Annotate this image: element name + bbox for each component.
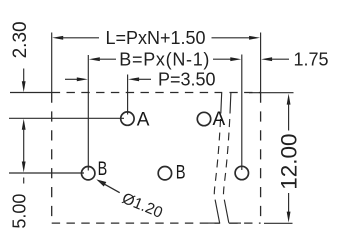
svg-text:B: B (98, 159, 108, 180)
svg-text:5.00: 5.00 (9, 194, 29, 229)
svg-text:2.30: 2.30 (10, 21, 31, 58)
svg-text:B=Px(N-1): B=Px(N-1) (119, 49, 210, 69)
svg-text:12.00: 12.00 (277, 133, 302, 189)
svg-text:A: A (137, 109, 150, 130)
svg-text:B: B (176, 163, 186, 184)
svg-text:1.75: 1.75 (294, 49, 329, 69)
svg-text:A: A (213, 109, 226, 130)
svg-text:P=3.50: P=3.50 (158, 69, 216, 89)
svg-text:L=PxN+1.50: L=PxN+1.50 (106, 28, 206, 48)
